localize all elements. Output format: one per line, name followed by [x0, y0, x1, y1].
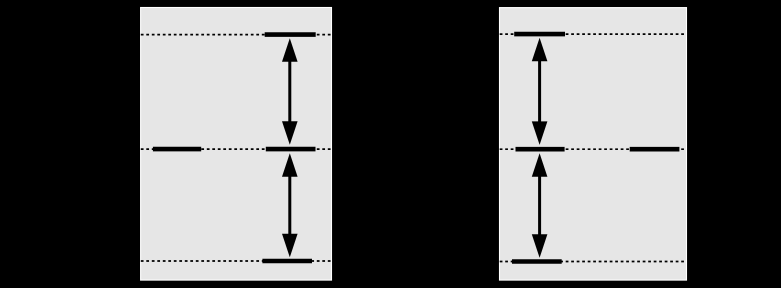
left panel top dashed guide line: [141, 34, 331, 36]
left panel box: [141, 8, 332, 281]
right panel box: [500, 8, 687, 281]
right panel top dashed guide line: [500, 33, 687, 35]
right panel upper double-headed gap arrow: [532, 38, 548, 145]
left panel upper double-headed gap arrow: [282, 38, 298, 145]
left panel upper energy level (right side): [265, 32, 316, 37]
left panel middle-left energy level: [153, 147, 201, 152]
right panel middle-left energy level: [516, 147, 565, 152]
right panel bottom dashed guide line: [500, 261, 687, 263]
right panel lower double-headed gap arrow: [532, 153, 548, 257]
left panel bottom dashed guide line: [141, 260, 331, 262]
right panel upper energy level (left side): [514, 32, 565, 37]
left panel lower energy level (right side): [262, 259, 312, 264]
right panel middle dashed guide line: [500, 148, 687, 150]
left panel middle dashed guide line: [141, 148, 331, 150]
left panel middle-right energy level: [266, 147, 316, 152]
left panel lower double-headed gap arrow: [282, 153, 298, 257]
right panel middle-right energy level: [630, 147, 680, 152]
right panel lower energy level (left side): [512, 259, 562, 264]
